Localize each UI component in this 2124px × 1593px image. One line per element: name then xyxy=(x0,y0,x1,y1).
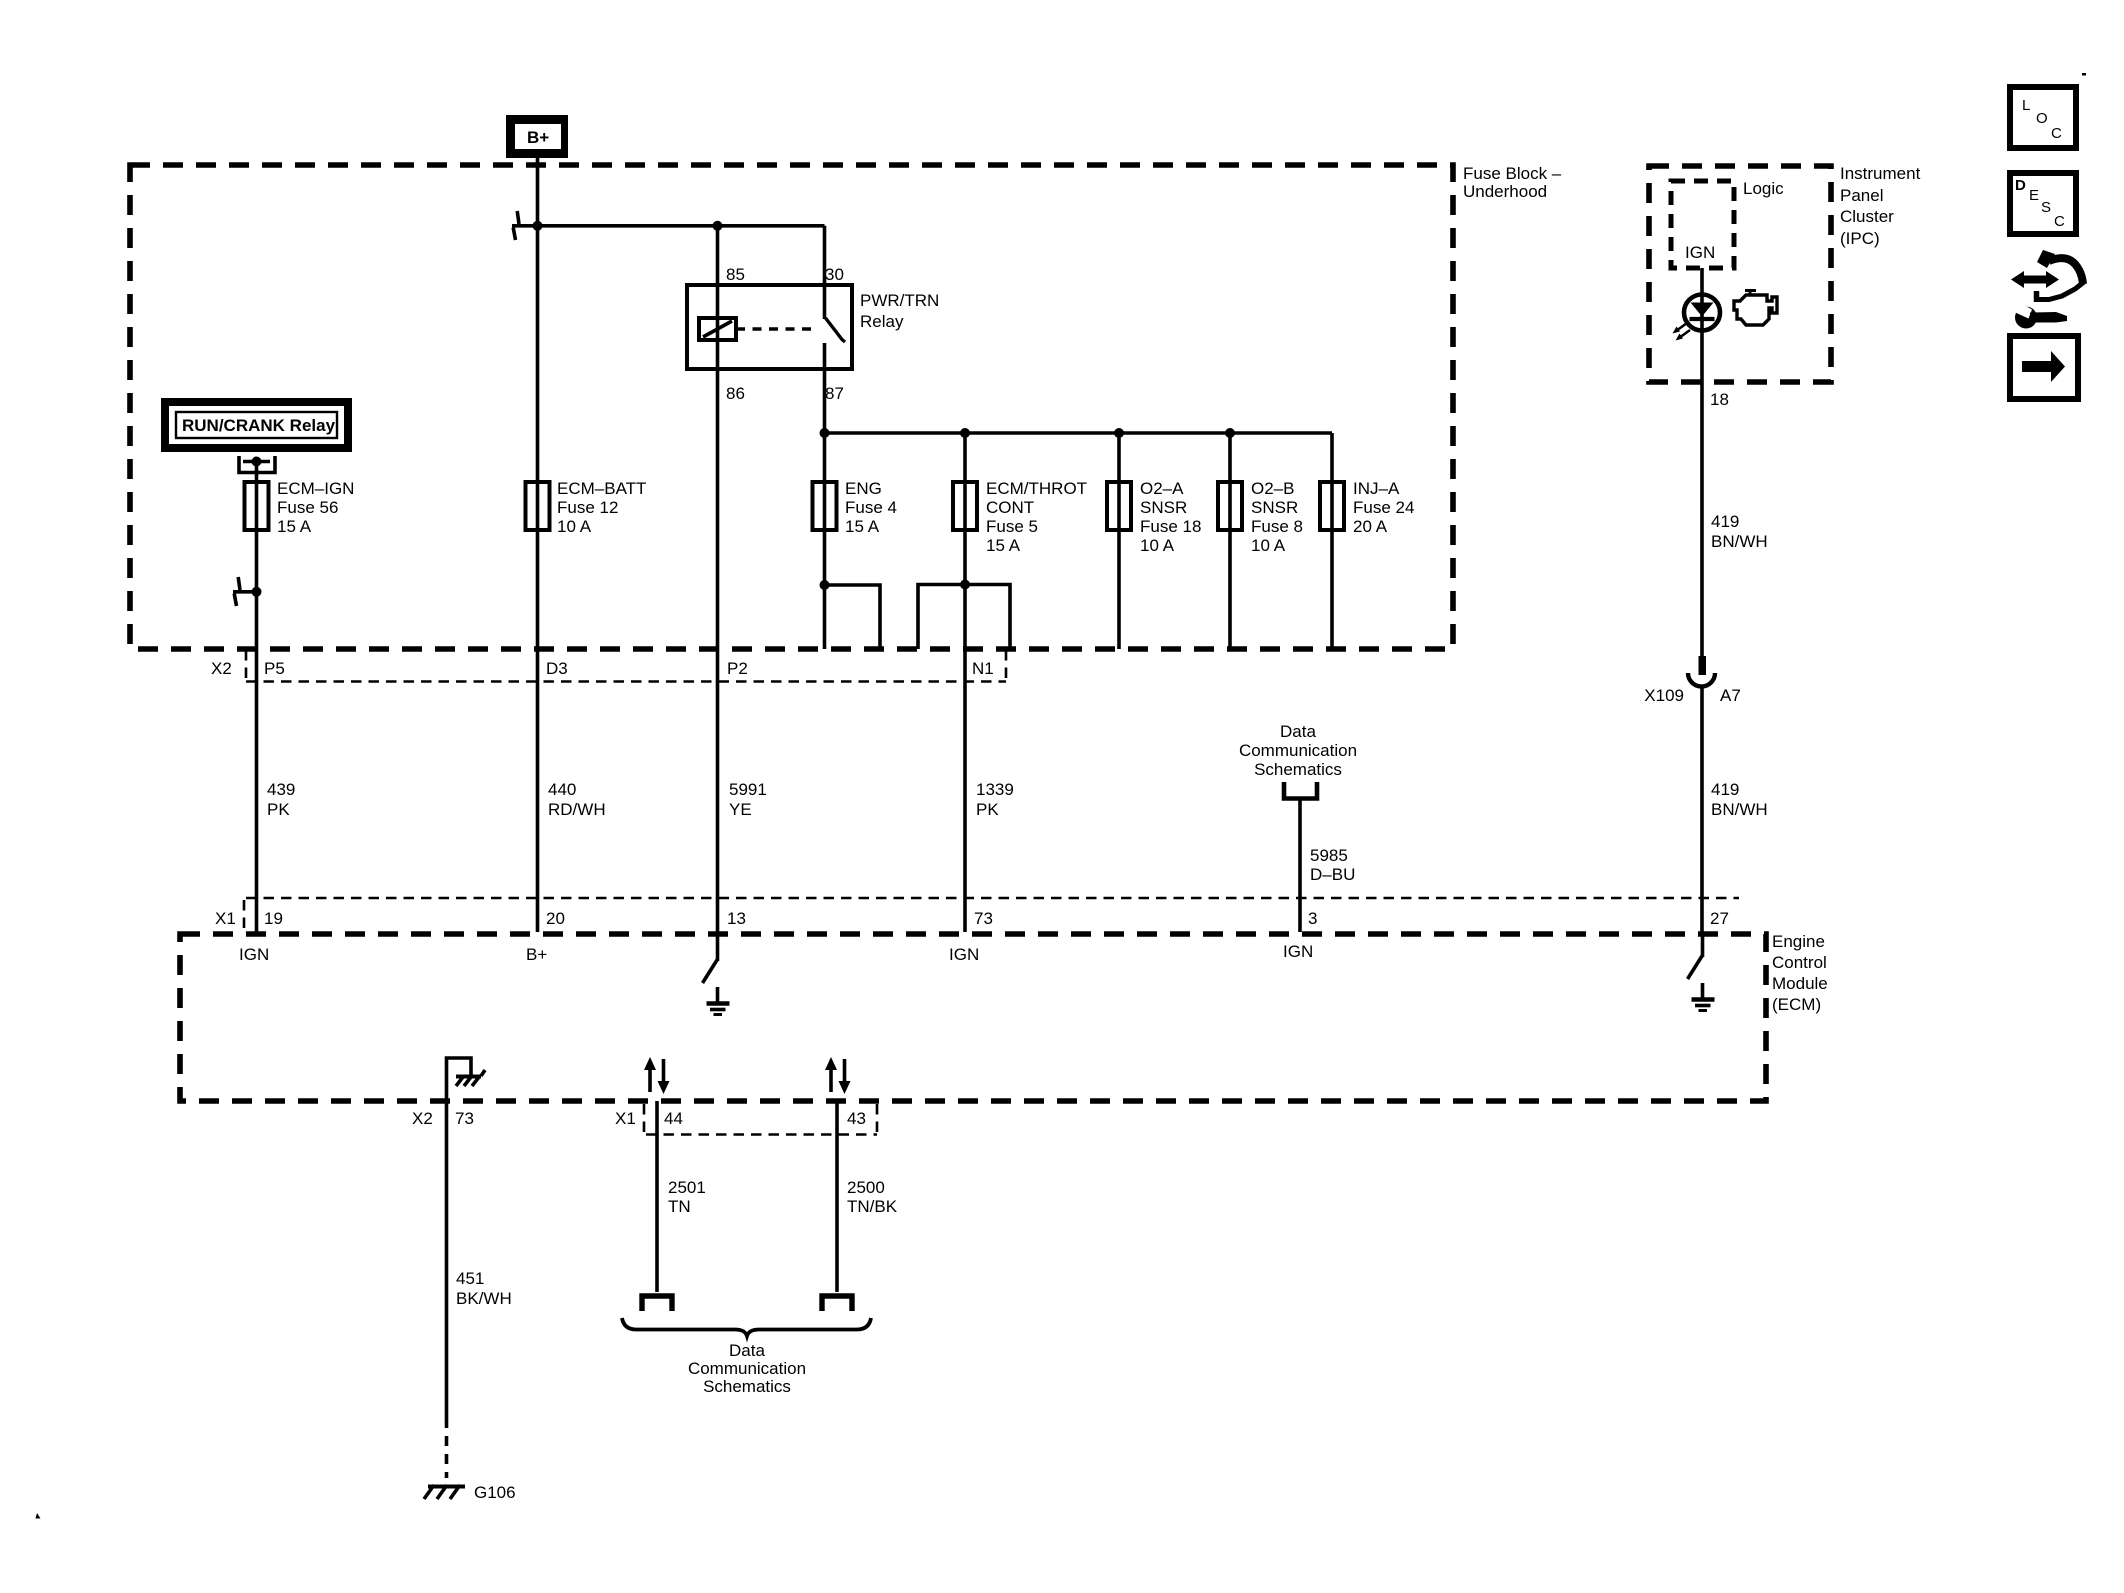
svg-text:BK/WH: BK/WH xyxy=(456,1289,512,1308)
svg-text:O2–A: O2–A xyxy=(1140,479,1184,498)
junction node bus at ECM/THROT fuse xyxy=(960,428,970,438)
svg-text:IGN: IGN xyxy=(1685,243,1715,262)
svg-text:5985: 5985 xyxy=(1310,846,1348,865)
wire 419 BN/WH lower xyxy=(1702,687,1768,932)
relay switch blade xyxy=(826,318,846,342)
svg-text:D–BU: D–BU xyxy=(1310,865,1355,884)
wire ECM/THROT left branch terminal xyxy=(918,585,965,650)
svg-text:44: 44 xyxy=(664,1109,683,1128)
svg-text:O2–B: O2–B xyxy=(1251,479,1294,498)
terminal symbol end of 2500 xyxy=(822,1296,852,1311)
svg-text:Fuse 12: Fuse 12 xyxy=(557,498,618,517)
wire 5985 D-BU xyxy=(1300,800,1355,932)
junction node below ECM/THROT fuse xyxy=(960,580,970,590)
pin 43 label and separator xyxy=(847,1104,877,1137)
wire relay pin 87 to bus xyxy=(823,343,827,433)
wire ECM/THROT right branch terminal xyxy=(965,585,1010,650)
pin N1 label and separator xyxy=(972,650,1006,684)
clip symbol below ECM-IGN fuse xyxy=(233,577,257,606)
svg-text:IGN: IGN xyxy=(239,945,269,964)
svg-text:Fuse 24: Fuse 24 xyxy=(1353,498,1414,517)
junction node below ENG fuse xyxy=(820,580,830,590)
svg-text:Instrument: Instrument xyxy=(1840,164,1921,183)
svg-text:ECM–BATT: ECM–BATT xyxy=(557,479,646,498)
svg-text:5991: 5991 xyxy=(729,780,767,799)
svg-text:Relay: Relay xyxy=(860,312,904,331)
ground inside ECM below pin 27 xyxy=(1692,983,1715,1011)
connector X1 label and separator xyxy=(215,900,244,933)
relay K1 PWR/TRN Relay box xyxy=(687,285,939,369)
wire ECM-IGN column xyxy=(255,462,259,933)
svg-text:Underhood: Underhood xyxy=(1463,182,1547,201)
IPC Instrument Panel Cluster box xyxy=(1649,164,1921,382)
icon harness double arrow xyxy=(2011,271,2059,288)
svg-text:18: 18 xyxy=(1710,390,1729,409)
node Data Communication Schematics (upper) xyxy=(1239,722,1357,799)
svg-text:O: O xyxy=(2036,110,2048,127)
connector X1 lower dashed bottom xyxy=(646,1133,877,1136)
svg-text:451: 451 xyxy=(456,1269,484,1288)
svg-text:43: 43 xyxy=(847,1109,866,1128)
fuse F24 INJ-A xyxy=(1320,479,1414,536)
power node B+ xyxy=(506,115,568,158)
svg-text:ECM/THROT: ECM/THROT xyxy=(986,479,1087,498)
svg-text:Fuse 18: Fuse 18 xyxy=(1140,517,1201,536)
svg-text:P5: P5 xyxy=(264,659,285,678)
svg-text:Communication: Communication xyxy=(688,1359,806,1378)
junction node bus at ENG fuse xyxy=(820,428,830,438)
ground G106 xyxy=(424,1483,516,1502)
junction node at RUN/CRANK terminal xyxy=(252,457,262,467)
svg-text:G106: G106 xyxy=(474,1483,516,1502)
fuse F12 ECM-BATT xyxy=(526,479,647,536)
wire ECM/THROT fuse column xyxy=(963,433,967,932)
svg-text:PK: PK xyxy=(976,800,999,819)
chassis ground inside ECM at X2-73 xyxy=(447,1058,486,1102)
svg-text:B+: B+ xyxy=(527,128,549,147)
svg-text:Fuse 4: Fuse 4 xyxy=(845,498,897,517)
wire 2501 TN xyxy=(657,1101,706,1292)
stray mark bottom left xyxy=(36,1513,41,1519)
svg-text:30: 30 xyxy=(825,265,844,284)
svg-text:P2: P2 xyxy=(727,659,748,678)
svg-text:IGN: IGN xyxy=(1283,942,1313,961)
svg-text:YE: YE xyxy=(729,800,752,819)
svg-text:20 A: 20 A xyxy=(1353,517,1388,536)
svg-text:19: 19 xyxy=(264,909,283,928)
svg-text:13: 13 xyxy=(727,909,746,928)
svg-text:Panel: Panel xyxy=(1840,186,1883,205)
wire B+ vertical to ECM-BATT fuse xyxy=(536,158,540,932)
svg-text:3: 3 xyxy=(1308,909,1317,928)
svg-text:Module: Module xyxy=(1772,974,1828,993)
IPC logic block xyxy=(1671,179,1784,268)
RUN/CRANK Relay source label box xyxy=(165,402,348,448)
svg-text:D3: D3 xyxy=(546,659,568,678)
node Data Communication Schematics (lower) xyxy=(688,1341,806,1396)
svg-text:RUN/CRANK Relay: RUN/CRANK Relay xyxy=(182,416,336,435)
junction node on B+ feed at ECM-BATT wire xyxy=(533,221,543,231)
svg-text:87: 87 xyxy=(825,384,844,403)
fuse block underhood box xyxy=(130,164,1562,649)
svg-text:15 A: 15 A xyxy=(277,517,312,536)
svg-text:PK: PK xyxy=(267,800,290,819)
terminal symbol end of 2501 xyxy=(642,1296,672,1311)
brace for data communication schematics xyxy=(622,1318,871,1336)
wire O2-B fuse column xyxy=(1228,433,1232,649)
svg-text:Fuse 56: Fuse 56 xyxy=(277,498,338,517)
icon forward arrow box xyxy=(2010,336,2078,399)
svg-text:PWR/TRN: PWR/TRN xyxy=(860,291,939,310)
fuse F56 ECM-IGN xyxy=(245,479,355,536)
icon LOC box xyxy=(2010,87,2076,148)
svg-text:D: D xyxy=(2015,177,2026,194)
svg-text:Fuse 8: Fuse 8 xyxy=(1251,517,1303,536)
svg-text:10 A: 10 A xyxy=(1140,536,1175,555)
svg-text:15 A: 15 A xyxy=(986,536,1021,555)
junction node on B+ feed at relay pin 85 wire xyxy=(713,221,723,231)
svg-text:BN/WH: BN/WH xyxy=(1711,800,1768,819)
wire pin 27 into ECM with switch xyxy=(1688,932,1703,979)
svg-text:X109: X109 xyxy=(1644,686,1684,705)
icon harness curved arrow outline xyxy=(2036,250,2084,302)
icon wrench xyxy=(2012,301,2067,329)
svg-text:Communication: Communication xyxy=(1239,741,1357,760)
wire O2-A fuse column xyxy=(1117,433,1121,649)
svg-text:10 A: 10 A xyxy=(1251,536,1286,555)
wire 2500 TN/BK xyxy=(837,1101,898,1292)
check engine icon xyxy=(1734,291,1777,326)
svg-text:TN/BK: TN/BK xyxy=(847,1197,898,1216)
fuse F18 O2-A SNSR xyxy=(1107,479,1201,555)
wire 1339 PK label xyxy=(976,780,1014,819)
ground inside ECM below pin 13 xyxy=(707,987,730,1015)
svg-text:27: 27 xyxy=(1710,909,1729,928)
svg-text:1339: 1339 xyxy=(976,780,1014,799)
fuse F4 ENG xyxy=(813,479,897,536)
svg-text:(ECM): (ECM) xyxy=(1772,995,1821,1014)
wire relay pin 30 drop xyxy=(823,226,827,319)
svg-text:RD/WH: RD/WH xyxy=(548,800,606,819)
junction node bus at O2-A fuse xyxy=(1114,428,1124,438)
svg-text:Logic: Logic xyxy=(1743,179,1784,198)
svg-text:2500: 2500 xyxy=(847,1178,885,1197)
junction node bus at O2-B fuse xyxy=(1225,428,1235,438)
svg-text:A7: A7 xyxy=(1720,686,1741,705)
inline connector X109 A7 xyxy=(1644,656,1741,705)
svg-text:B+: B+ xyxy=(526,945,547,964)
svg-text:X2: X2 xyxy=(211,659,232,678)
ECM Engine Control Module box xyxy=(180,932,1828,1101)
svg-text:X1: X1 xyxy=(615,1109,636,1128)
svg-text:IGN: IGN xyxy=(949,945,979,964)
wire 419 BN/WH upper xyxy=(1702,383,1768,657)
svg-text:INJ–A: INJ–A xyxy=(1353,479,1400,498)
wire INJ-A fuse column xyxy=(1330,433,1334,649)
svg-text:Fuse Block –: Fuse Block – xyxy=(1463,164,1562,183)
svg-text:440: 440 xyxy=(548,780,576,799)
svg-text:439: 439 xyxy=(267,780,295,799)
svg-text:73: 73 xyxy=(455,1109,474,1128)
connector X2 pin 73 labels xyxy=(412,1109,474,1128)
svg-text:Cluster: Cluster xyxy=(1840,207,1894,226)
fuse F8 O2-B SNSR xyxy=(1218,479,1303,555)
svg-text:TN: TN xyxy=(668,1197,691,1216)
svg-text:Engine: Engine xyxy=(1772,932,1825,951)
fuse F5 ECM/THROT CONT xyxy=(953,479,1087,555)
svg-text:N1: N1 xyxy=(972,659,994,678)
svg-text:C: C xyxy=(2054,213,2065,230)
icon DESC box xyxy=(2010,173,2076,234)
svg-text:BN/WH: BN/WH xyxy=(1711,532,1768,551)
connector X1 band dashed line xyxy=(246,897,1739,900)
svg-text:Schematics: Schematics xyxy=(1254,760,1342,779)
svg-text:419: 419 xyxy=(1711,512,1739,531)
wire fuse feed bus from pin 87 xyxy=(825,431,1333,435)
svg-text:Data: Data xyxy=(1280,722,1316,741)
wire ENG fuse branch to second terminal xyxy=(825,585,881,649)
wire 451 dashed continuation xyxy=(445,1418,449,1478)
wire pin 13 into ECM with switch xyxy=(703,932,718,983)
svg-text:73: 73 xyxy=(974,909,993,928)
stray mark top right xyxy=(2082,73,2086,76)
wire 5991 YE label xyxy=(729,780,767,819)
svg-text:E: E xyxy=(2029,187,2039,204)
svg-text:ENG: ENG xyxy=(845,479,882,498)
wire 439 PK label xyxy=(267,780,295,819)
svg-text:Fuse 5: Fuse 5 xyxy=(986,517,1038,536)
indicator lamp rays xyxy=(1673,323,1691,341)
svg-text:SNSR: SNSR xyxy=(1251,498,1298,517)
terminal receptacle from RUN/CRANK relay xyxy=(239,456,275,473)
svg-text:CONT: CONT xyxy=(986,498,1034,517)
svg-text:ECM–IGN: ECM–IGN xyxy=(277,479,354,498)
wire 440 RD/WH label xyxy=(548,780,606,819)
svg-text:X2: X2 xyxy=(412,1109,433,1128)
svg-text:10 A: 10 A xyxy=(557,517,592,536)
relay coil xyxy=(699,318,736,340)
connector X2 band separator xyxy=(211,650,285,684)
svg-text:SNSR: SNSR xyxy=(1140,498,1187,517)
wire relay pin 85/86 coil wire, net 5991 xyxy=(716,226,720,932)
svg-text:Schematics: Schematics xyxy=(703,1377,791,1396)
svg-text:86: 86 xyxy=(726,384,745,403)
svg-text:L: L xyxy=(2022,97,2030,114)
bidirectional arrows at pin 44 xyxy=(644,1057,670,1094)
relay actuation dashed link xyxy=(736,327,812,330)
wire ENG fuse column xyxy=(823,433,827,649)
svg-text:15 A: 15 A xyxy=(845,517,880,536)
wire 451 BK/WH xyxy=(447,1102,512,1418)
svg-text:Control: Control xyxy=(1772,953,1827,972)
svg-text:85: 85 xyxy=(726,265,745,284)
clip symbol at B+ feed junction xyxy=(512,211,538,240)
svg-text:419: 419 xyxy=(1711,780,1739,799)
svg-text:(IPC): (IPC) xyxy=(1840,229,1880,248)
svg-text:Data: Data xyxy=(729,1341,765,1360)
svg-text:20: 20 xyxy=(546,909,565,928)
svg-text:S: S xyxy=(2041,199,2051,216)
connector band bottom dashed line xyxy=(246,680,1006,683)
svg-text:2501: 2501 xyxy=(668,1178,706,1197)
connector X1 lower label and separator xyxy=(615,1104,644,1137)
svg-text:X1: X1 xyxy=(215,909,236,928)
wire B+ horizontal feed to relay pin 30 xyxy=(538,224,825,228)
junction node below ECM-IGN fuse xyxy=(252,587,262,597)
indicator lamp (MIL) symbol xyxy=(1684,295,1720,331)
bidirectional arrows at pin 43 xyxy=(825,1057,851,1094)
svg-text:C: C xyxy=(2051,125,2062,142)
wire logic to indicator xyxy=(1700,268,1704,383)
